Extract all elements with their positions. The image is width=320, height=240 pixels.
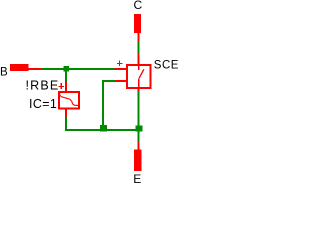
- svg-text:SCE: SCE: [154, 60, 179, 72]
- svg-text:E: E: [133, 172, 141, 184]
- svg-text:!RBE: !RBE: [26, 79, 60, 93]
- svg-text:IC=1: IC=1: [29, 97, 57, 111]
- svg-text:B: B: [0, 66, 8, 78]
- svg-text:C: C: [133, 0, 142, 12]
